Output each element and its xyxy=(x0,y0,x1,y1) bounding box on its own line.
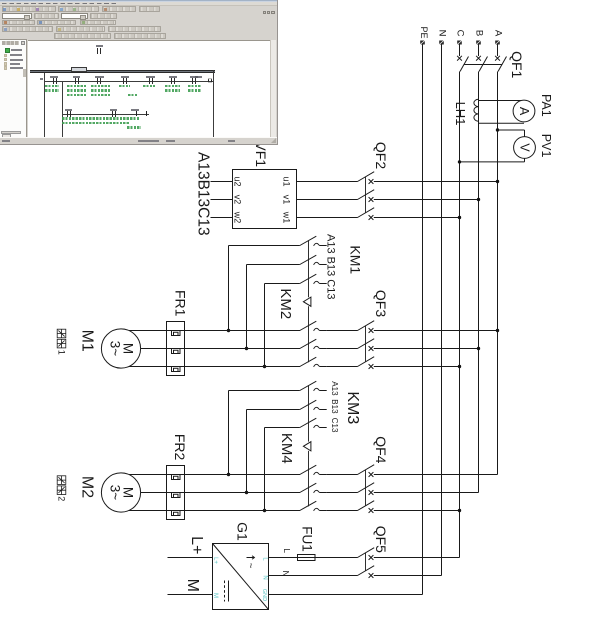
inverter VF1 xyxy=(233,170,297,229)
circuit breaker QF2 (3-pole, inverter feed) xyxy=(358,172,375,220)
svg-text:FR2: FR2 xyxy=(172,434,188,461)
wire FR1 to KM2 row1 xyxy=(185,330,301,332)
wire VF1 u2 stub xyxy=(211,181,233,183)
svg-text:3~: 3~ xyxy=(108,341,123,357)
circuit breaker QF1 (3-pole main) xyxy=(457,56,506,72)
wire C bus upper (terminal to QF1) xyxy=(459,45,461,57)
svg-text:QF2: QF2 xyxy=(373,142,389,169)
wire QF2 pole2 to B bus xyxy=(374,199,479,201)
mechanical linkage KM1-KM2 xyxy=(308,241,310,297)
wire QF3 pole3 to C bus xyxy=(374,366,460,368)
svg-text:N: N xyxy=(281,571,290,577)
svg-text:L+: L+ xyxy=(212,557,218,564)
wire M1 to FR1 row2 xyxy=(126,348,167,350)
wire FU1 to QF5 xyxy=(315,557,357,559)
svg-text:QF4: QF4 xyxy=(373,436,389,463)
wire QF3 pole1 to A bus xyxy=(374,330,498,332)
wire N bus to QF5 pole2 xyxy=(374,575,442,577)
svg-text:w2: w2 xyxy=(233,211,243,224)
wire A bus vertical xyxy=(497,72,499,475)
node A/QF2 junction xyxy=(496,180,499,183)
wire M1 to FR1 row3 xyxy=(126,366,167,368)
ammeter PA1 xyxy=(513,100,535,122)
svg-text:QF3: QF3 xyxy=(373,290,389,317)
svg-text:A13B13C13: A13B13C13 xyxy=(195,152,212,236)
contactor KM4 (bypass contacts, motor 2) xyxy=(300,465,358,511)
svg-text:FR1: FR1 xyxy=(173,290,189,317)
mechanical linkage KM3-KM4 xyxy=(308,385,310,441)
wire voltmeter bottom lead xyxy=(524,158,526,162)
svg-text:M: M xyxy=(184,579,201,592)
wire QF2 pole3 to C bus xyxy=(374,217,460,219)
circuit breaker QF3 (bypass feed) xyxy=(358,321,375,369)
node riser2/FR2 row2 xyxy=(245,491,248,494)
svg-text:M1: M1 xyxy=(78,330,95,352)
svg-text:A: A xyxy=(492,30,503,37)
svg-text:QF5: QF5 xyxy=(373,526,389,553)
node A supply terminal xyxy=(495,41,500,45)
svg-text:N: N xyxy=(436,30,447,37)
wire VF1 w1 to QF2 xyxy=(297,217,358,219)
wire N bus vertical xyxy=(441,45,443,576)
svg-text:L: L xyxy=(282,548,291,553)
svg-text:A13: A13 xyxy=(330,381,339,396)
node riser3/FR2 row3 xyxy=(263,509,266,512)
wire G1 M stub xyxy=(168,594,213,596)
wire FR2 to KM4 row1 xyxy=(185,474,301,476)
wire C bus to QF5 pole1 xyxy=(374,557,460,559)
contactor KM2 (bypass contacts) xyxy=(300,321,358,367)
svg-text:FU1: FU1 xyxy=(300,526,315,552)
svg-text:G1: G1 xyxy=(235,522,251,541)
wire VF1 v2 stub xyxy=(211,199,233,201)
circuit breaker QF4 xyxy=(358,465,375,513)
svg-text:~: ~ xyxy=(245,563,256,569)
wire B bus upper (terminal to QF1) xyxy=(478,45,480,57)
wire voltmeter top lead xyxy=(498,129,525,131)
svg-text:PE: PE xyxy=(419,26,429,38)
svg-text:u1: u1 xyxy=(281,176,291,186)
wire G1 L to FU1 xyxy=(269,557,299,559)
wire QF3 pole2 to B bus xyxy=(374,348,479,350)
wire VF1 v1 to QF2 xyxy=(297,199,358,201)
node N supply terminal xyxy=(439,41,444,45)
wire B bus vertical xyxy=(478,72,480,493)
software window screenshot (PLC programming tool) xyxy=(0,0,278,145)
svg-text:KM4: KM4 xyxy=(278,433,295,464)
power supply G1 (AC/DC) xyxy=(212,544,269,610)
node C/QF4 junction xyxy=(458,509,461,512)
wire FR2 to KM4 row3 xyxy=(185,510,301,512)
svg-text:v2: v2 xyxy=(233,195,243,205)
svg-text:M: M xyxy=(212,593,218,598)
wire G1 N to QF5 xyxy=(269,575,358,577)
svg-text:w1: w1 xyxy=(281,211,291,224)
circuit breaker QF5 (2-pole) xyxy=(358,548,375,578)
wire C bus vertical xyxy=(459,72,461,558)
svg-text:PV1: PV1 xyxy=(539,134,553,158)
wire CT secondary to ammeter (top) xyxy=(479,100,525,102)
node A/QF3 junction xyxy=(496,329,499,332)
contactor KM3 (inverter output contacts, motor 2) xyxy=(229,381,327,510)
svg-text:u2: u2 xyxy=(233,176,243,186)
wire M2 to FR2 row3 xyxy=(126,510,167,512)
node C supply terminal xyxy=(457,41,462,45)
wire G1 L+ stub xyxy=(168,557,213,559)
node riser1/FR1 row1 xyxy=(227,329,230,332)
current transformer LH1 xyxy=(474,99,479,121)
wire FR1 to KM2 row3 xyxy=(185,366,301,368)
node PE supply terminal xyxy=(420,41,425,45)
svg-text:V: V xyxy=(517,143,531,152)
node riser3/FR1 row3 xyxy=(263,365,266,368)
node riser2/FR1 row2 xyxy=(245,347,248,350)
label fan1 (Chinese) xyxy=(57,329,66,348)
node A-phase voltmeter tap xyxy=(496,128,499,131)
svg-text:2: 2 xyxy=(56,496,66,501)
svg-text:B13: B13 xyxy=(330,399,339,414)
wire VF1 w2 stub xyxy=(211,217,233,219)
svg-text:QF1: QF1 xyxy=(509,51,525,78)
node riser1/FR2 row1 xyxy=(227,473,230,476)
wire B bus to QF4 pole2 xyxy=(374,492,479,494)
svg-text:PA1: PA1 xyxy=(539,94,553,117)
label fan2 (Chinese) xyxy=(57,476,66,495)
wire M2 to FR2 row2 xyxy=(126,492,167,494)
wire M2 to FR2 row1 xyxy=(126,474,167,476)
voltmeter PV1 xyxy=(514,137,536,159)
svg-text:M2: M2 xyxy=(78,476,95,498)
wire CT secondary to ammeter (bottom) xyxy=(479,122,525,124)
svg-text:A13 B13 C13: A13 B13 C13 xyxy=(325,234,337,299)
svg-text:A: A xyxy=(517,107,531,116)
svg-text:KM1: KM1 xyxy=(348,245,364,274)
svg-text:LH1: LH1 xyxy=(453,102,468,126)
svg-text:N: N xyxy=(262,575,268,579)
svg-text:VF1: VF1 xyxy=(253,141,269,167)
thermal overload relay FR2 xyxy=(167,466,185,520)
wire FR2 to KM4 row2 xyxy=(185,492,301,494)
wire PE bus vertical xyxy=(422,45,424,595)
wire VF1 u1 to QF2 xyxy=(297,181,358,183)
interlock triangle KM4 xyxy=(303,442,311,451)
svg-text:KM2: KM2 xyxy=(277,288,294,319)
svg-text:B: B xyxy=(473,30,484,36)
contactor KM1 (inverter output contacts) xyxy=(229,236,327,366)
svg-text:3~: 3~ xyxy=(108,485,123,501)
motor M1 xyxy=(101,329,140,368)
node C-phase voltmeter tap xyxy=(458,160,461,163)
svg-text:GND: GND xyxy=(261,589,267,601)
svg-text:v1: v1 xyxy=(281,195,291,205)
node B/QF3 junction xyxy=(477,347,480,350)
interlock triangle KM2 xyxy=(303,297,311,306)
node C/QF2 junction xyxy=(458,216,461,219)
wire A bus upper (terminal to QF1) xyxy=(497,45,499,57)
node C/QF3 junction xyxy=(458,365,461,368)
svg-text:L+: L+ xyxy=(188,536,205,554)
wire PE bus to G1 GND xyxy=(269,594,423,596)
wire QF4 pole3 to C bus xyxy=(374,510,460,512)
motor M2 xyxy=(101,473,140,512)
svg-text:1: 1 xyxy=(56,350,66,355)
node B supply terminal xyxy=(476,41,481,45)
svg-text:KM3: KM3 xyxy=(344,391,361,424)
wire QF2 pole1 to A bus xyxy=(374,181,498,183)
node B/QF2 junction xyxy=(477,198,480,201)
wire FR1 to KM2 row2 xyxy=(185,348,301,350)
thermal overload relay FR1 xyxy=(167,322,185,376)
wire M1 to FR1 row1 xyxy=(126,330,167,332)
wire A bus to QF4 pole1 xyxy=(374,474,498,476)
svg-text:C: C xyxy=(454,30,465,37)
fuse FU1 xyxy=(298,555,316,561)
svg-text:C13: C13 xyxy=(330,418,339,433)
